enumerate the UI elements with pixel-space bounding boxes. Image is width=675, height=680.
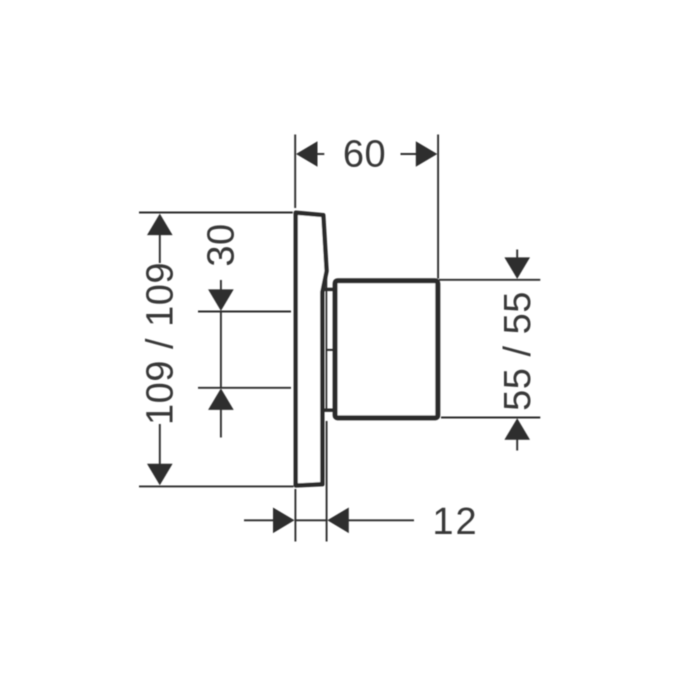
svg-text:60: 60	[343, 133, 386, 175]
dimension 55/55: bottom extension line	[441, 417, 540, 419]
dimension 30: upper arrow (pointing down)	[220, 280, 222, 293]
dimension 12: left line + arrow (pointing right)	[244, 519, 276, 521]
dimension 55/55: bottom arrow (pointing up)	[504, 418, 530, 440]
dimension 30: lower arrow (pointing up)	[208, 388, 234, 410]
sleeve top edge	[325, 288, 337, 291]
sleeve centre tick	[327, 349, 334, 351]
dimension 30: lower tick line	[198, 387, 291, 389]
svg-text:55 / 55: 55 / 55	[497, 291, 539, 411]
dimension 12: left extension line	[294, 489, 296, 542]
dimension 60: right extension line	[437, 135, 439, 279]
dimension 55/55: top extension line	[439, 279, 540, 281]
dimension 109/109: bottom extension line	[139, 485, 294, 487]
dimension 60: right arrow	[416, 141, 438, 167]
escutcheon plate (side view body)	[296, 213, 327, 486]
svg-text:30: 30	[200, 223, 242, 266]
dimension 109/109: top extension line	[139, 212, 293, 214]
svg-text:12: 12	[432, 501, 478, 543]
dimension 60: left extension line	[294, 135, 296, 209]
dimension 109/109: top arrow	[147, 214, 173, 236]
plate rim edge line (thin, widest silhouette)	[325, 271, 327, 411]
dimension 12: right arrow (pointing left) + line	[327, 508, 349, 534]
dimension 30: upper tick line	[198, 311, 291, 313]
dimension 60: left arrow	[296, 141, 318, 167]
dimension 109/109: bottom arrow	[147, 464, 173, 486]
dimension 55/55: top arrow (pointing down)	[516, 250, 518, 262]
dimension 30: dimension line	[220, 312, 222, 388]
sleeve bottom edge	[325, 409, 337, 412]
dimension 12: middle line	[295, 519, 327, 521]
svg-text:109 / 109: 109 / 109	[140, 262, 182, 425]
dimension 12: right extension line	[326, 421, 328, 542]
handle knob (side view)	[335, 281, 438, 418]
